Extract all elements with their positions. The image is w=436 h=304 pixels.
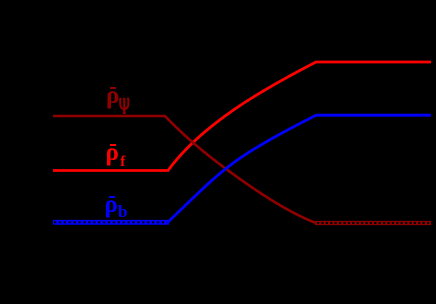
label rho_f: [110, 144, 117, 147]
curve rho_psi right plateau (dashed tube): [315, 221, 431, 225]
curve rho_b left flat (dashed tube): [53, 220, 169, 225]
label rho_b: [109, 196, 115, 198]
label rho_psi: [110, 87, 116, 89]
curve rho_psi (dark red, falling): [53, 116, 316, 223]
curve rho_f (bright red, rising): [53, 62, 431, 171]
curve rho_b (blue, rising): [168, 115, 431, 222]
